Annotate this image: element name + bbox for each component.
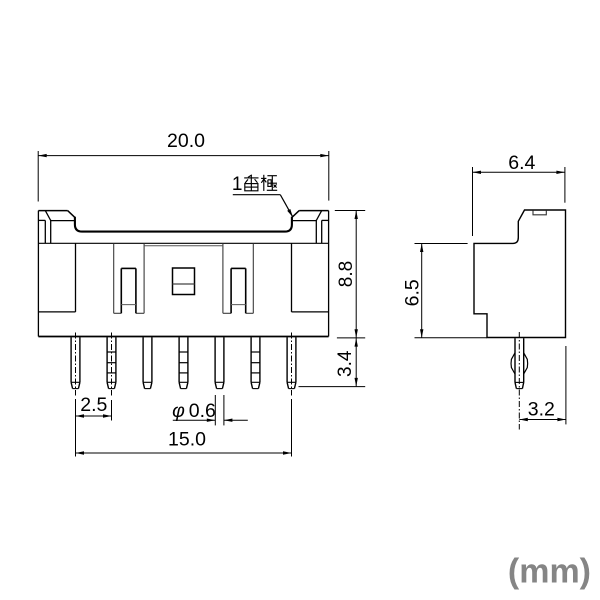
left inner wall slot	[114, 243, 144, 313]
svg-text:20.0: 20.0	[167, 130, 205, 152]
pin 7 centerline	[291, 333, 293, 396]
dimension phi 0.6	[173, 395, 248, 425]
dimension 3.4	[299, 338, 366, 387]
svg-text:3.2: 3.2	[528, 398, 555, 420]
side view top notch	[533, 211, 546, 215]
svg-text:15.0: 15.0	[168, 428, 206, 450]
svg-text:6.4: 6.4	[508, 152, 535, 174]
svg-text:8.8: 8.8	[336, 261, 357, 287]
pin 1 centerline	[75, 333, 77, 396]
svg-text:1: 1	[232, 174, 243, 195]
pin 4	[179, 337, 188, 388]
dimension 2.5	[76, 399, 112, 457]
svg-text:(mm): (mm)	[508, 553, 591, 591]
side view pin	[511, 338, 528, 388]
pin 2 centerline	[111, 333, 113, 396]
front view recessed top surface (thick line with curved ends)	[75, 217, 292, 232]
side view outline	[474, 210, 566, 338]
front view body outline	[38, 211, 328, 337]
dimension 8.8	[335, 211, 365, 387]
dimension 20.0	[38, 151, 329, 202]
right contact	[231, 268, 246, 313]
kanji 極 (kyoku) hand drawn	[261, 175, 277, 191]
dimension 6.4	[473, 167, 565, 236]
front ledge line	[38, 242, 328, 244]
svg-text:6.5: 6.5	[401, 279, 423, 306]
pin 2	[107, 337, 116, 388]
svg-text:φ 0.6: φ 0.6	[172, 400, 216, 422]
kanji 番 (ban) hand drawn	[244, 175, 258, 191]
leader line pin1 label	[233, 195, 293, 218]
right inner wall slot	[223, 243, 253, 313]
dimension 6.5	[415, 244, 488, 338]
pin 6	[251, 337, 260, 388]
left ear 3d edges	[38, 211, 75, 244]
right side block	[292, 243, 329, 312]
pin 7	[287, 337, 296, 388]
dimension 3.2	[519, 346, 566, 424]
svg-text:2.5: 2.5	[80, 394, 107, 416]
center boss	[173, 268, 195, 295]
dimension 15.0	[76, 399, 292, 457]
center tongue ledge	[144, 245, 223, 247]
pin 1	[71, 337, 80, 388]
side pin centerline	[518, 332, 520, 430]
pin 5	[215, 337, 224, 388]
svg-text:3.4: 3.4	[335, 350, 356, 377]
left side block	[38, 243, 75, 312]
pin 3	[143, 337, 152, 388]
right ear 3d edges	[292, 211, 329, 244]
left contact	[121, 268, 136, 313]
